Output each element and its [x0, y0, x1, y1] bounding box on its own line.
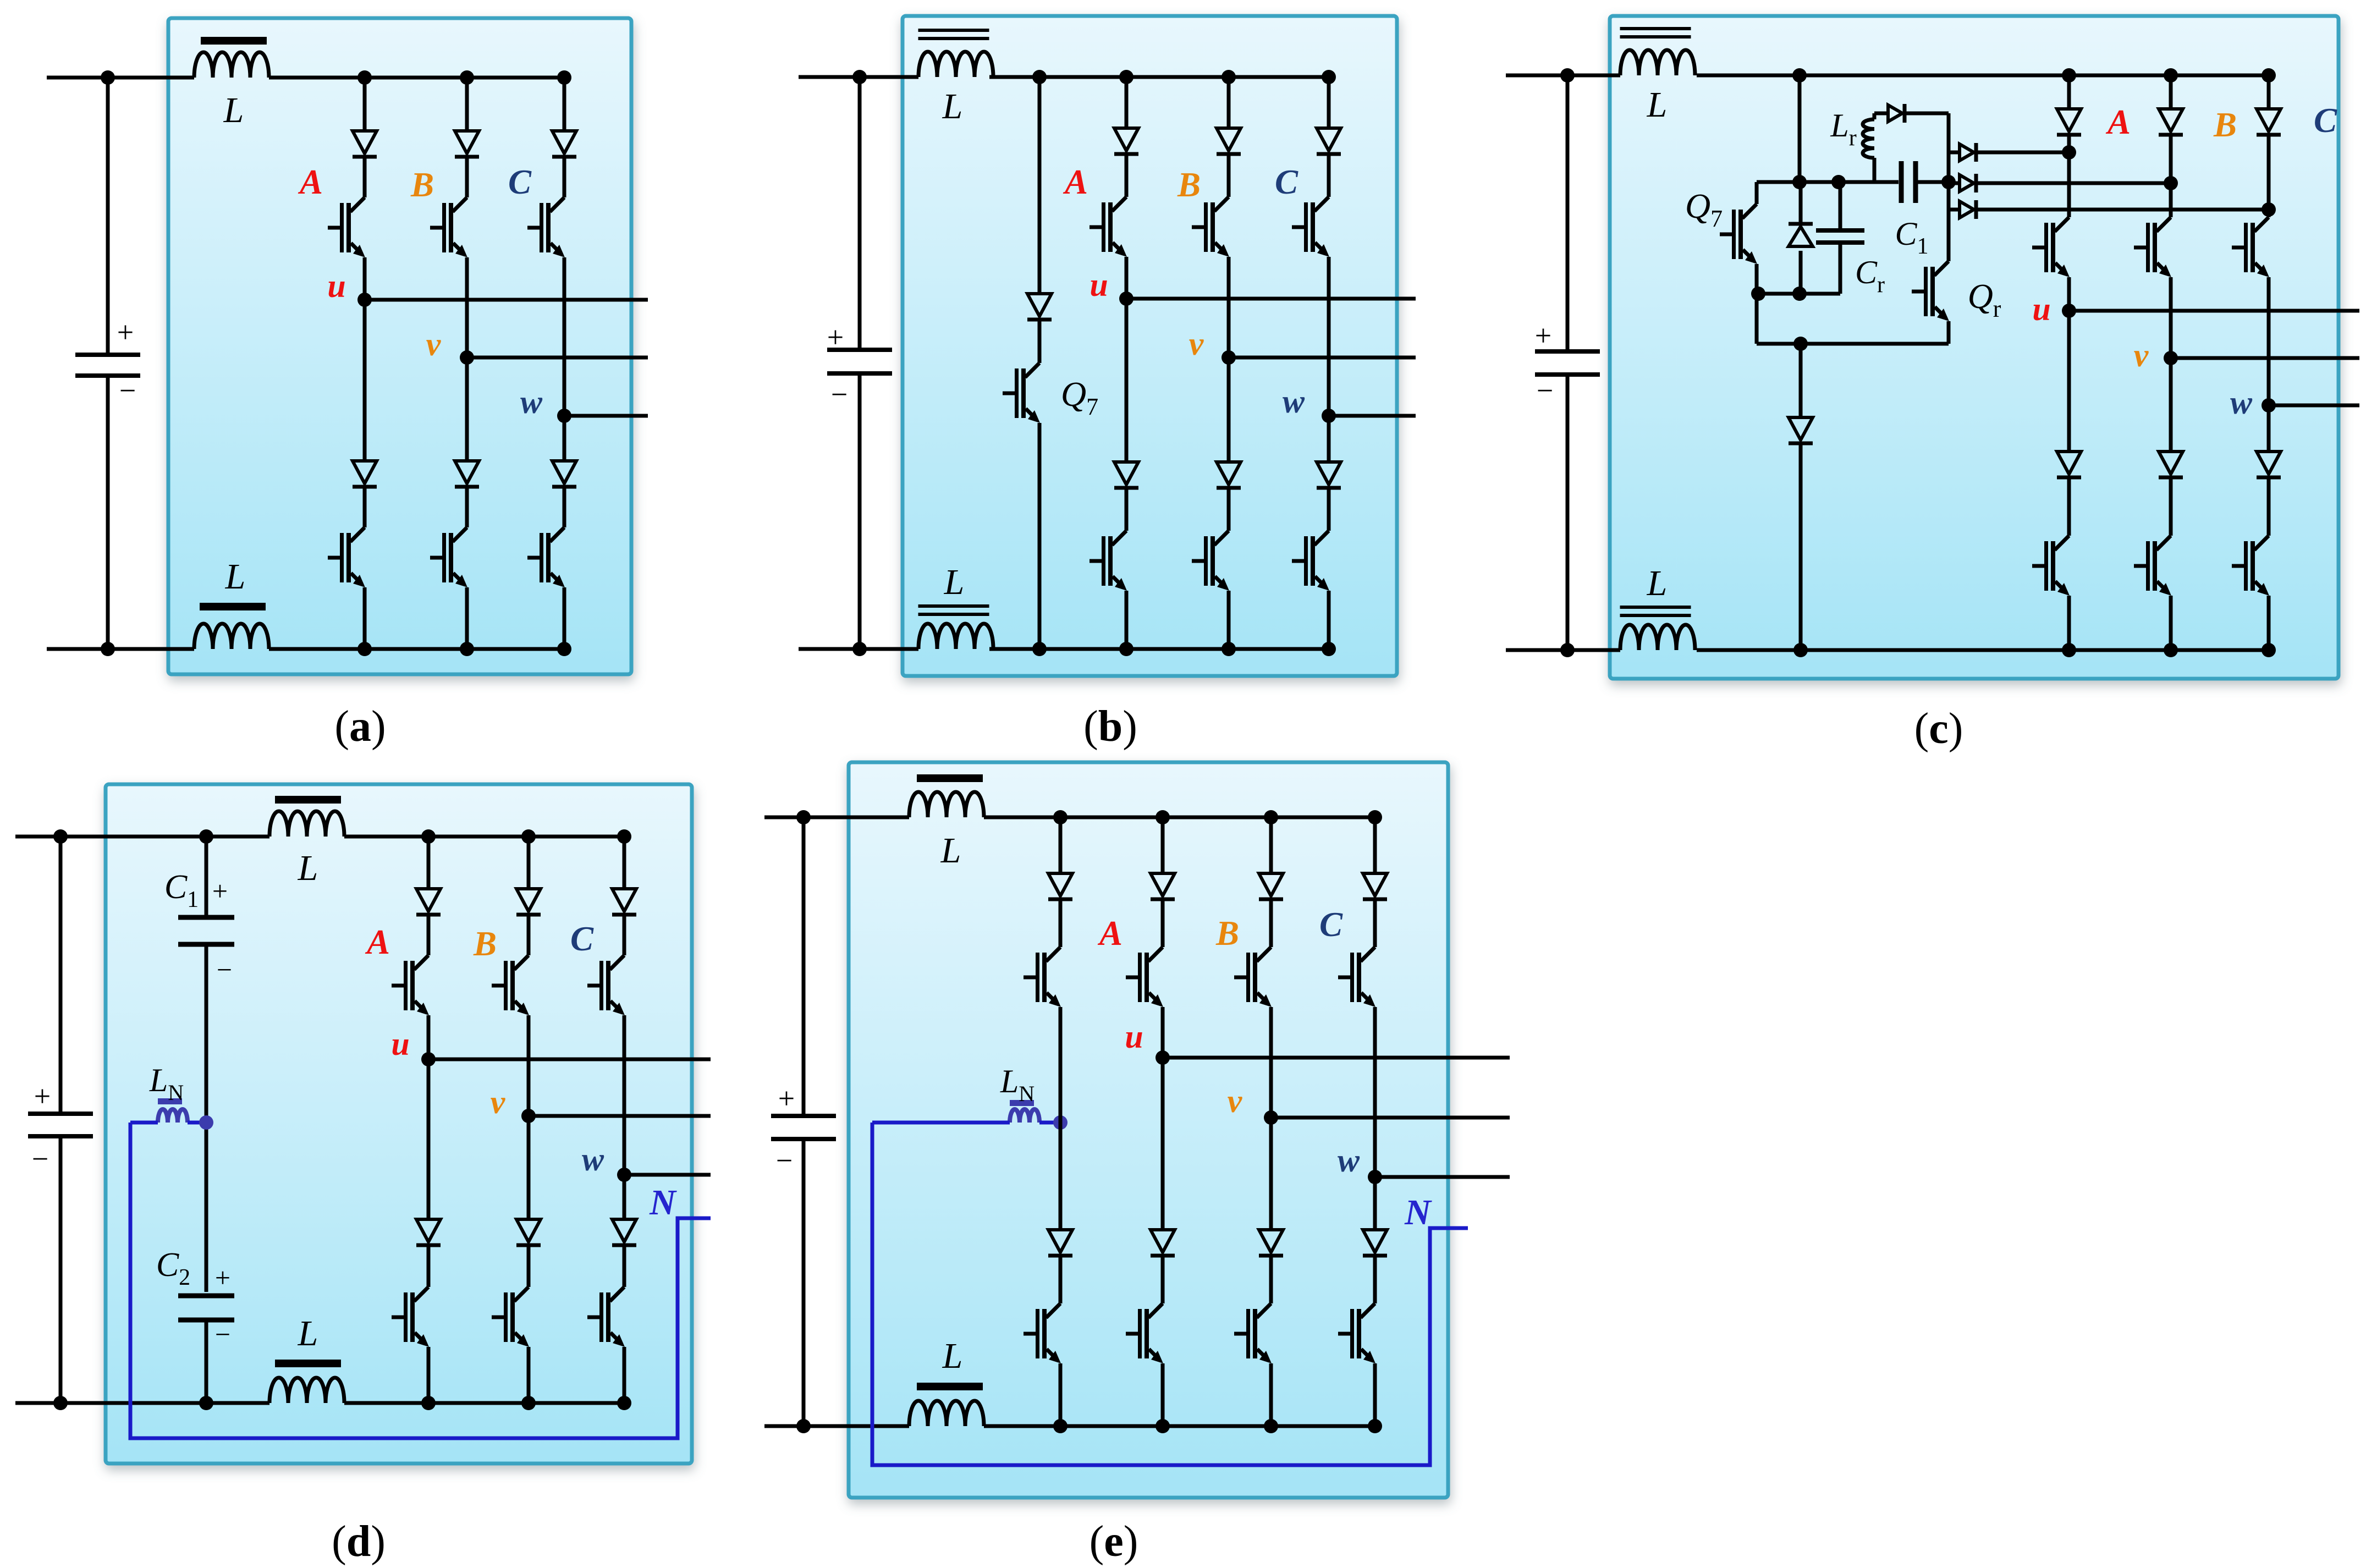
wire B-leg (a) IGBT-to-node [465, 257, 469, 357]
wire DC bus left (e) [802, 817, 806, 1116]
capacitor C2 (d) [178, 1296, 234, 1320]
node clamp A-leg (c) [2062, 145, 2076, 159]
svg-text:−: − [1537, 374, 1553, 407]
wire A-leg (c) to mid node [2067, 277, 2071, 311]
wire Q7 leg middle (b) [1038, 321, 1042, 363]
svg-text:w: w [520, 384, 543, 420]
transistor B-leg (c) top IGBT [2134, 217, 2171, 277]
capacitor Cr (c) [1839, 182, 1842, 228]
transistor B-leg (c) bottom IGBT [2134, 536, 2171, 596]
node u (b) [1119, 291, 1134, 306]
wire A-leg (d) IGBT-to-node [427, 1015, 431, 1059]
wire right riser (c) [1947, 113, 1951, 152]
wire output v (d) [529, 1114, 711, 1118]
wire LN lead (e) [872, 1121, 1010, 1125]
transistor A-leg (c) bottom IGBT [2032, 536, 2070, 596]
transistor Qr (c) [1912, 261, 1949, 321]
diode B-leg (e) bottom [1259, 1230, 1283, 1256]
transistor N-leg bottom IGBT (e) [1024, 1303, 1061, 1363]
svg-text:N: N [649, 1182, 677, 1223]
transistor B-leg (e) bottom IGBT [1234, 1303, 1272, 1363]
inductor L top (a) [194, 52, 269, 78]
wire A-leg (e) diode-to-IGBT [1161, 901, 1165, 947]
transistor C-leg (e) top IGBT [1338, 947, 1375, 1007]
wire C-leg (d) upper [623, 837, 626, 887]
wire C-leg (c) to lower IGBT [2267, 479, 2271, 536]
wire drop to freewheel diode (c) [1799, 344, 1803, 416]
wire C-leg (b) IGBT-to-node [1327, 257, 1331, 416]
wire B-leg (e) IGBT-to-node [1269, 1007, 1273, 1118]
wire DC- rail (d) [15, 1401, 269, 1405]
svg-text:+: + [827, 321, 844, 354]
wire C-leg (a) node-to-lower-diode [563, 416, 566, 459]
wire output w (e) [1375, 1175, 1510, 1179]
transistor A-leg (d) top IGBT [392, 955, 429, 1015]
diode A-leg (e) bottom [1151, 1230, 1175, 1256]
wire C-leg (b) diode-to-IGBT [1327, 156, 1331, 197]
wire B-leg (c) to node [2169, 136, 2173, 183]
wire C-leg (a) upper [563, 78, 566, 129]
wire B-leg (a) node-to-lower-diode [465, 357, 469, 459]
svg-text:v: v [1228, 1083, 1243, 1119]
wire split-capacitor branch lower (d) [205, 1322, 208, 1403]
node w (a) [557, 409, 571, 423]
wire split-capacitor branch upper (d) [205, 837, 208, 915]
panel (b) background box [903, 16, 1397, 676]
svg-text:C: C [570, 920, 594, 958]
diode B-leg (c) bottom [2159, 452, 2183, 477]
svg-text:−: − [119, 374, 136, 407]
capacitor C1 (c) [1901, 161, 1916, 203]
wire C-leg (d) to lower IGBT [623, 1247, 626, 1287]
wire A-leg (d) lower [427, 1347, 431, 1403]
svg-text:w: w [582, 1141, 604, 1178]
svg-text:L: L [940, 830, 961, 871]
transistor B-leg (a) top IGBT [430, 197, 467, 257]
wire B-leg (d) IGBT-to-node [527, 1015, 531, 1116]
wire A-leg (c) lower [2067, 596, 2071, 650]
wire output u (a) [365, 298, 648, 302]
transistor C-leg (a) top IGBT [527, 197, 565, 257]
wire B-leg (b) lower [1227, 591, 1231, 649]
wire A-leg (c) to lower IGBT [2067, 479, 2071, 536]
inductor L top (e) [909, 792, 984, 817]
wire A-leg (b) to lower IGBT [1125, 489, 1129, 531]
wire A-leg (e) IGBT-to-node [1161, 1007, 1165, 1058]
wire C-leg (b) node-to-lower-diode [1327, 416, 1331, 460]
svg-text:A: A [298, 163, 323, 201]
svg-text:N: N [1404, 1192, 1432, 1233]
transistor A-leg (b) bottom IGBT [1090, 531, 1127, 591]
junction dots bottom rail (d) [53, 1396, 68, 1410]
wire B-leg (e) diode-to-IGBT [1269, 901, 1273, 947]
transistor A-leg (a) top IGBT [328, 197, 365, 257]
svg-text:v: v [2134, 337, 2149, 373]
transistor B-leg (b) bottom IGBT [1192, 531, 1229, 591]
wire A-leg (d) node-to-lower-diode [427, 1059, 431, 1218]
wire B-leg (a) lower [465, 587, 469, 649]
wire A-leg (d) upper [427, 837, 431, 887]
diode B-leg (c) top [2159, 109, 2183, 135]
diode C-leg (e) top [1363, 873, 1387, 899]
svg-text:L: L [1647, 563, 1668, 603]
wire DC+ rail (e) [764, 816, 909, 819]
wire B-leg (a) to lower IGBT [465, 488, 469, 527]
wire output w (c) [2269, 404, 2359, 408]
inductor L top (c) [1620, 50, 1695, 75]
svg-text:−: − [32, 1142, 48, 1175]
junction dots top rail (a) [101, 70, 115, 85]
diode B-leg (d) bottom [516, 1219, 541, 1245]
diode A-leg (a) top [353, 131, 377, 157]
svg-text:+: + [215, 1262, 230, 1293]
svg-text:−: − [215, 1319, 230, 1350]
transistor B-leg (a) bottom IGBT [430, 527, 467, 587]
wire output v (a) [467, 356, 648, 360]
svg-text:+: + [1535, 319, 1551, 352]
wire Qr emitter (c) [1947, 321, 1951, 344]
wire C-leg (d) diode-to-IGBT [623, 916, 626, 955]
wire output u (d) [428, 1058, 711, 1061]
wire DC bus left (d) [59, 837, 63, 1114]
transistor C-leg (d) bottom IGBT [587, 1287, 625, 1347]
wire B-leg (b) upper [1227, 77, 1231, 126]
junction dots top rail (d) [53, 829, 68, 844]
node u (e) [1156, 1050, 1170, 1065]
transistor A-leg (b) top IGBT [1090, 197, 1127, 257]
wire Q7 emitter (c) [1755, 264, 1759, 294]
diode A-leg (a) bottom [353, 461, 377, 487]
svg-text:(b): (b) [1083, 702, 1137, 751]
transistor C-leg (b) top IGBT [1292, 197, 1329, 257]
svg-text:B: B [1177, 166, 1201, 204]
diode A-leg (c) top [2057, 109, 2081, 135]
svg-text:L: L [942, 86, 963, 126]
wire C-leg (d) lower [623, 1347, 626, 1403]
svg-text:+: + [212, 876, 228, 906]
wire C-leg (e) lower [1373, 1363, 1377, 1426]
diode freewheel lower (c) [1789, 417, 1813, 443]
wire B-leg (b) to lower IGBT [1227, 489, 1231, 531]
wire N-leg middle (e) [1059, 1007, 1063, 1228]
node v (a) [460, 350, 474, 365]
wire DC- rail (a) [47, 647, 194, 651]
diode A-leg (b) bottom [1114, 462, 1138, 488]
capacitor C1 (d) [178, 917, 234, 944]
wire B-leg (d) lower [527, 1347, 531, 1403]
wire A-leg (b) diode-to-IGBT [1125, 156, 1129, 197]
wire output w (a) [564, 414, 648, 418]
wire A-leg (b) IGBT-to-node [1125, 257, 1129, 299]
wire B-leg (b) node-to-lower-diode [1227, 357, 1231, 460]
svg-text:L: L [298, 848, 318, 888]
svg-text:w: w [1283, 383, 1305, 420]
svg-text:v: v [491, 1084, 506, 1120]
wire B-leg (a) upper [465, 78, 469, 129]
junction dot bottom resonant (c) [1793, 337, 1808, 351]
node w (b) [1322, 409, 1336, 423]
wire C-leg (d) IGBT-to-node [623, 1015, 626, 1175]
wire B-leg (e) upper [1269, 817, 1273, 872]
svg-text:A: A [2105, 103, 2131, 141]
svg-text:w: w [2230, 384, 2253, 421]
svg-text:−: − [776, 1144, 793, 1177]
wire B-leg (c) mid to lower diode [2169, 358, 2173, 450]
diode B-leg (b) bottom [1217, 462, 1241, 488]
wire C-leg (e) node-to-lower-diode [1373, 1177, 1377, 1228]
node clamp C-leg (c) [2262, 202, 2276, 217]
wire C-leg (c) lower [2267, 596, 2271, 650]
wire A-leg (a) upper [363, 78, 367, 129]
wire B-leg (c) to mid node [2169, 277, 2173, 358]
inductor L top (b) [918, 52, 993, 77]
junction dots bottom rail (c) [1560, 643, 1575, 657]
node LN junction (d) [199, 1115, 213, 1130]
wire center drop from top rail (c) [1798, 75, 1802, 182]
diode C-leg (b) top [1317, 128, 1341, 154]
wire B-leg (b) IGBT-to-node [1227, 257, 1231, 357]
wire A-leg (e) node-to-lower-diode [1161, 1058, 1165, 1228]
capacitor DC link (a) [75, 355, 140, 376]
junction dots resonant bus (c) [1792, 175, 1807, 189]
wire N-leg lower (e) [1059, 1363, 1063, 1426]
wire B-leg (d) to lower IGBT [527, 1247, 531, 1287]
node v (e) [1264, 1110, 1278, 1125]
wire output u (b) [1126, 297, 1416, 301]
wire neutral loop (d) [130, 1123, 711, 1438]
wire A-leg (e) upper [1161, 817, 1165, 872]
wire A-leg (a) IGBT-to-node [363, 257, 367, 300]
inductor LN (e) [1010, 1100, 1034, 1106]
diode C-leg (c) top [2257, 109, 2281, 135]
capacitor DC link (c) [1535, 351, 1600, 375]
svg-text:+: + [34, 1080, 51, 1113]
transistor C-leg (c) top IGBT [2232, 217, 2269, 277]
junction dots top rail (e) [796, 810, 811, 824]
svg-text:L: L [298, 1313, 318, 1354]
node w (e) [1368, 1170, 1382, 1184]
wire B-leg (a) diode-to-IGBT [465, 158, 469, 197]
inductor L top (d) [269, 811, 344, 837]
wire row1 to leg A (c) [1978, 151, 2069, 155]
wire A-leg (b) lower [1125, 591, 1129, 649]
wire A-leg (c) upper [2067, 75, 2071, 107]
diode C-leg (a) top [552, 131, 576, 157]
diode C-leg (b) bottom [1317, 462, 1341, 488]
wire C-leg (b) to lower IGBT [1327, 489, 1331, 531]
wire B-leg (b) diode-to-IGBT [1227, 156, 1231, 197]
inductor LN (d) [158, 1098, 182, 1104]
node w (c) [2262, 398, 2276, 412]
diode A-leg (d) top [416, 889, 441, 915]
capacitor DC link (e) [771, 1116, 836, 1139]
wire A-leg (a) diode-to-IGBT [363, 158, 367, 197]
wire output w (d) [624, 1173, 711, 1177]
diode N-leg bottom (e) [1048, 1230, 1072, 1256]
inductor L bottom (a) [194, 624, 269, 649]
wire N-leg diode-to-IGBT (e) [1059, 901, 1063, 947]
wire C-leg (e) IGBT-to-node [1373, 1007, 1377, 1177]
wire freewheel to bottom rail (c) [1799, 445, 1803, 650]
wire row2 to leg B (c) [1978, 181, 2171, 185]
transistor A-leg (e) top IGBT [1126, 947, 1163, 1007]
wire output v (c) [2171, 356, 2359, 360]
svg-text:−: − [831, 378, 848, 411]
wire neutral loop (e) [872, 1123, 1468, 1465]
panel (a) background box [168, 18, 631, 674]
wire C-leg (c) upper [2267, 75, 2271, 107]
wire B-leg (e) to lower IGBT [1269, 1257, 1273, 1303]
node u (c) [2062, 304, 2076, 318]
svg-text:C: C [1319, 905, 1343, 944]
diode A-leg (b) top [1114, 128, 1138, 154]
wire C-leg (c) to node [2267, 136, 2271, 210]
transistor A-leg (c) top IGBT [2032, 217, 2070, 277]
wire C-leg (c) to IGBT [2267, 210, 2271, 217]
panel (c) background box [1610, 16, 2339, 679]
wire DC+ rail (d) [15, 835, 269, 839]
wire Q7 collector drop (c) [1755, 182, 1759, 204]
wire output w (b) [1329, 414, 1416, 418]
wire B-leg (c) lower [2169, 596, 2173, 650]
svg-text:L: L [225, 557, 246, 597]
inductor L bottom (e) [909, 1401, 984, 1426]
wire A-leg (b) upper [1125, 77, 1129, 126]
wire C-leg (a) lower [563, 587, 566, 649]
wire DC- rail (c) [1506, 648, 1620, 652]
wire C-leg (a) to lower IGBT [563, 488, 566, 527]
transistor B-leg (b) top IGBT [1192, 197, 1229, 257]
wire C-leg (a) diode-to-IGBT [563, 158, 566, 197]
junction dots bottom rail (a) [101, 642, 115, 656]
svg-text:−: − [217, 954, 232, 985]
panel (e) background box [849, 762, 1448, 1498]
inductor L bottom (c) [1620, 625, 1695, 650]
wire left drop (c) [1755, 294, 1759, 344]
capacitor DC link (d) [28, 1114, 93, 1136]
diode B-leg (a) bottom [455, 461, 479, 487]
wire A-leg (e) to lower IGBT [1161, 1257, 1165, 1303]
svg-text:A: A [365, 923, 390, 961]
svg-text:C: C [1275, 163, 1298, 201]
wire C-leg (d) node-to-lower-diode [623, 1175, 626, 1218]
diode B-leg (b) top [1217, 128, 1241, 154]
transistor C-leg (b) bottom IGBT [1292, 531, 1329, 591]
diode B-leg (d) top [516, 889, 541, 915]
transistor Q7 (b) [1003, 363, 1040, 423]
wire A-leg (d) to lower IGBT [427, 1247, 431, 1287]
svg-text:+: + [117, 316, 134, 349]
wire B-leg (e) lower [1269, 1363, 1273, 1426]
svg-text:L: L [1647, 85, 1668, 125]
junction dots bottom rail (e) [796, 1419, 811, 1433]
wire Q7 leg upper (b) [1038, 77, 1042, 292]
transistor B-leg (d) bottom IGBT [492, 1287, 529, 1347]
wire N-leg upper (e) [1059, 817, 1063, 872]
svg-text:v: v [1189, 326, 1204, 362]
svg-text:B: B [2213, 106, 2237, 144]
node w (d) [617, 1168, 631, 1182]
diode N-leg top (e) [1048, 873, 1072, 899]
wire DC+ rail (c) [1506, 74, 1620, 78]
svg-text:+: + [778, 1082, 795, 1115]
wire A-leg (a) to lower IGBT [363, 488, 367, 527]
wire A-leg (e) lower [1161, 1363, 1165, 1426]
svg-text:L: L [223, 90, 244, 130]
wire A-leg (c) to node [2067, 136, 2071, 152]
wire output v (e) [1271, 1116, 1510, 1120]
wire B-leg (c) to lower IGBT [2169, 479, 2173, 536]
wire row3 to leg C (c) [1978, 208, 2269, 212]
diode row1 (c) [1949, 151, 1960, 155]
wire output v (b) [1229, 356, 1416, 360]
transistor B-leg (d) top IGBT [492, 955, 529, 1015]
svg-text:(a): (a) [334, 702, 386, 751]
transistor C-leg (c) bottom IGBT [2232, 536, 2269, 596]
wire C-leg (b) lower [1327, 591, 1331, 649]
junction dots emitter row (c) [1751, 287, 1765, 301]
wire C-leg (a) IGBT-to-node [563, 257, 566, 416]
panel (d) background box [106, 784, 692, 1464]
wire LN lead (d) [130, 1121, 158, 1125]
svg-text:L: L [942, 1336, 963, 1376]
node u (a) [357, 293, 372, 307]
diode A-leg (d) bottom [416, 1219, 441, 1245]
diode A-leg (e) top [1151, 873, 1175, 899]
transistor C-leg (e) bottom IGBT [1338, 1303, 1375, 1363]
wire split-capacitor branch middle (d) [205, 945, 208, 1292]
svg-text:B: B [1215, 914, 1239, 953]
transistor C-leg (d) top IGBT [587, 955, 625, 1015]
junction dots top rail (c) [1560, 68, 1575, 82]
wire A-leg (c) to IGBT [2067, 152, 2071, 217]
transistor B-leg (e) top IGBT [1234, 947, 1272, 1007]
wire C-leg (c) mid to lower diode [2267, 405, 2271, 450]
diode top small (c) [1888, 104, 1905, 123]
wire output u (e) [1163, 1056, 1510, 1060]
wire DC bus left (a) [106, 78, 110, 355]
svg-text:u: u [327, 268, 345, 304]
inductor Lr (c) [1873, 113, 1877, 119]
node LN junction (e) [1053, 1115, 1068, 1130]
transistor A-leg (d) bottom IGBT [392, 1287, 429, 1347]
svg-text:(c): (c) [1914, 705, 1963, 753]
svg-text:u: u [1125, 1019, 1143, 1055]
node u (d) [421, 1052, 436, 1066]
svg-text:(d): (d) [332, 1517, 386, 1566]
diode clamp anti-parallel (c) [1799, 182, 1803, 222]
svg-text:u: u [1090, 267, 1108, 303]
wire B-leg (d) diode-to-IGBT [527, 916, 531, 955]
diode row3 (c) [1949, 208, 1960, 212]
wire A-leg (c) mid to lower diode [2067, 311, 2071, 450]
wire A-leg (a) lower [363, 587, 367, 649]
wire bottom of resonant cell (c) [1757, 342, 1949, 346]
diode B-leg (e) top [1259, 873, 1283, 899]
svg-text:C: C [2314, 101, 2337, 140]
wire B-leg (e) node-to-lower-diode [1269, 1118, 1273, 1228]
transistor C-leg (a) bottom IGBT [527, 527, 565, 587]
wire N-leg to lower IGBT (e) [1059, 1257, 1063, 1303]
wire DC bus left (c) [1566, 75, 1570, 351]
wire Lr top link (c) [1874, 112, 1888, 115]
node v (d) [521, 1109, 536, 1123]
wire C-leg (c) to mid node [2267, 277, 2271, 405]
svg-text:L: L [944, 562, 965, 602]
diode B-leg (a) top [455, 131, 479, 157]
wire C-leg (b) upper [1327, 77, 1331, 126]
svg-text:A: A [1097, 914, 1123, 953]
